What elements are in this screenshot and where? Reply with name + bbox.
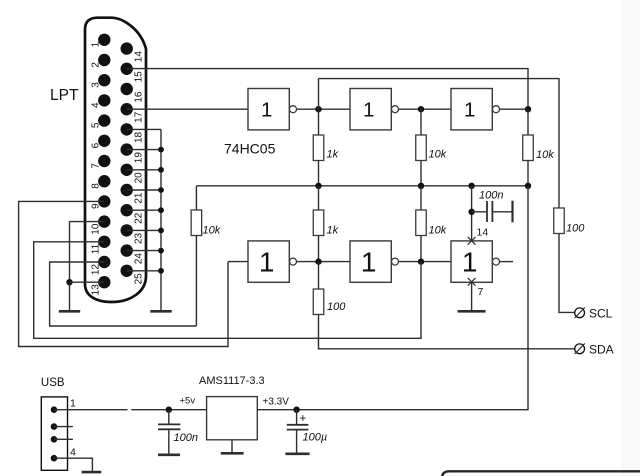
svg-text:100n: 100n bbox=[479, 190, 503, 202]
wire pin11 to node E bbox=[34, 242, 421, 338]
ground (C2) bbox=[158, 453, 180, 456]
pin 23 (LPT) bbox=[121, 224, 145, 244]
wire +3.3V rail bbox=[196, 185, 528, 187]
svg-text:100: 100 bbox=[566, 223, 585, 235]
node C junction bbox=[418, 106, 424, 112]
pin 8 (LPT) bbox=[90, 175, 110, 189]
pin 22 (LPT) bbox=[121, 204, 145, 224]
resistor R3 10k bbox=[523, 135, 554, 161]
svg-text:2: 2 bbox=[90, 62, 101, 68]
svg-text:10k: 10k bbox=[429, 225, 447, 237]
wire U2 tab to ground bbox=[231, 440, 233, 453]
label +3.3V bbox=[263, 397, 290, 408]
label USB bbox=[41, 377, 65, 389]
wire +5V segment b bbox=[131, 409, 206, 411]
resistor R6 10k bbox=[416, 210, 447, 237]
ground (U2) bbox=[221, 452, 244, 455]
ground (C3) bbox=[285, 452, 309, 455]
wire +5V segment a bbox=[54, 409, 128, 411]
rail junction node C bbox=[418, 183, 424, 189]
pin 5 (LPT) bbox=[90, 114, 110, 128]
capacitor C2 100n bbox=[158, 410, 180, 454]
svg-text:9: 9 bbox=[90, 203, 101, 209]
svg-text:10: 10 bbox=[90, 223, 101, 235]
wire node B to R 10k bbox=[527, 109, 529, 135]
bus junction pin 23 bbox=[158, 228, 164, 234]
pin 25 (LPT) bbox=[121, 265, 145, 285]
inverter U1B bbox=[350, 89, 399, 130]
svg-text:20: 20 bbox=[134, 172, 145, 184]
label 100n (C2) bbox=[174, 432, 198, 444]
wire U1E out to node E bbox=[399, 261, 452, 263]
capacitor C3 100u polarized bbox=[287, 410, 309, 454]
pin 1 (LPT) bbox=[90, 34, 110, 48]
svg-text:+: + bbox=[300, 413, 307, 425]
svg-text:14: 14 bbox=[477, 227, 489, 239]
label SDA bbox=[589, 343, 614, 357]
inverter U1E bbox=[350, 241, 399, 282]
svg-text:5: 5 bbox=[90, 122, 101, 128]
svg-text:13: 13 bbox=[90, 284, 101, 296]
svg-text:11: 11 bbox=[90, 243, 101, 254]
label AMS1117-3.3 bbox=[199, 375, 265, 387]
resistor R8 100 bbox=[554, 208, 585, 235]
wire pin10 to ground bbox=[70, 222, 105, 311]
usb pin 2 bbox=[51, 423, 73, 430]
svg-text:24: 24 bbox=[134, 253, 145, 265]
resistor R7 100 bbox=[313, 289, 346, 315]
svg-text:21: 21 bbox=[134, 192, 145, 204]
pin 19 (LPT) bbox=[121, 143, 145, 163]
wire ground bus pins 18-25 bbox=[127, 129, 161, 311]
svg-text:6: 6 bbox=[90, 142, 101, 148]
pin 2 (LPT) bbox=[90, 54, 110, 68]
inverter U1A bbox=[248, 89, 297, 130]
wire R8 to SCL bbox=[559, 234, 575, 313]
pin 20 (LPT) bbox=[121, 164, 145, 184]
wire U1 pin7 to ground bbox=[471, 282, 473, 311]
wire rail to R4 bbox=[195, 186, 197, 210]
svg-text:22: 22 bbox=[134, 212, 145, 224]
pin 13 (LPT) bbox=[90, 276, 110, 295]
bus junction pin 25 bbox=[158, 268, 164, 274]
svg-text:AMS1117-3.3: AMS1117-3.3 bbox=[199, 375, 265, 387]
pin14 x-mark bbox=[468, 237, 476, 245]
svg-text:100µ: 100µ bbox=[303, 432, 328, 444]
node D junction bbox=[315, 258, 321, 264]
frame corner (decor) bbox=[442, 471, 640, 476]
node E junction bbox=[418, 258, 424, 264]
svg-text:23: 23 bbox=[134, 232, 145, 244]
svg-text:14: 14 bbox=[134, 51, 145, 63]
capacitor C1 100n bbox=[472, 201, 512, 222]
wire node A to R 1k bbox=[318, 109, 320, 135]
svg-text:4: 4 bbox=[90, 102, 101, 108]
pin 24 (LPT) bbox=[121, 244, 145, 264]
wire rail to R6 bbox=[420, 186, 422, 210]
svg-text:16: 16 bbox=[134, 91, 145, 103]
svg-text:1: 1 bbox=[90, 41, 101, 47]
pin 14 label U1 bbox=[477, 227, 489, 239]
pin 3 (LPT) bbox=[90, 74, 110, 88]
svg-text:10k: 10k bbox=[203, 225, 221, 237]
svg-text:+3.3V: +3.3V bbox=[263, 397, 290, 408]
wire R7 to SDA line bbox=[319, 315, 575, 349]
wire pin9 to U1D input bbox=[19, 201, 228, 346]
pin 10 (LPT) bbox=[90, 215, 110, 234]
connector J1 LPT DB25 shell bbox=[85, 18, 146, 302]
svg-text:8: 8 bbox=[90, 183, 101, 189]
wire R1 to rail bbox=[318, 161, 320, 186]
svg-text:1k: 1k bbox=[327, 225, 339, 237]
svg-text:1: 1 bbox=[361, 247, 377, 278]
usb pin 4 label bbox=[70, 447, 76, 459]
pin 11 (LPT) bbox=[90, 236, 110, 255]
pin 7 (LPT) bbox=[90, 155, 110, 169]
wire R3 to rail bbox=[527, 161, 529, 186]
wire node D to R7 bbox=[318, 262, 320, 289]
wire R4 to pin12 line bbox=[195, 236, 197, 327]
pin7 x-mark bbox=[468, 278, 476, 286]
pin 15 (LPT) bbox=[121, 63, 145, 83]
node B junction bbox=[525, 106, 531, 112]
pin 4 (LPT) bbox=[90, 94, 110, 108]
ground (pin10/13) bbox=[59, 310, 80, 313]
svg-text:1: 1 bbox=[462, 247, 478, 278]
svg-text:4: 4 bbox=[70, 447, 76, 459]
wire node A top link bbox=[319, 79, 560, 208]
pin 17 (LPT) bbox=[121, 103, 145, 123]
svg-text:12: 12 bbox=[90, 264, 101, 276]
pin 12 (LPT) bbox=[90, 256, 110, 275]
wire pin12 to R4 bbox=[50, 262, 197, 326]
resistor R4 10k bbox=[191, 210, 221, 237]
wire R5 to node D bbox=[318, 236, 320, 262]
svg-text:74HC05: 74HC05 bbox=[224, 141, 276, 157]
node A junction bbox=[315, 106, 321, 112]
rail junction node A bbox=[315, 183, 321, 189]
svg-text:1: 1 bbox=[464, 99, 475, 122]
svg-text:25: 25 bbox=[134, 273, 145, 285]
svg-text:1k: 1k bbox=[327, 149, 339, 161]
bus junction pin 24 bbox=[158, 248, 164, 254]
node pin10/13 junction bbox=[66, 279, 72, 285]
svg-text:USB: USB bbox=[41, 377, 65, 389]
usb pin 1 label bbox=[70, 398, 76, 410]
svg-text:SDA: SDA bbox=[589, 343, 614, 357]
rail junction node B bbox=[525, 183, 531, 189]
svg-text:18: 18 bbox=[134, 131, 145, 143]
svg-text:1: 1 bbox=[363, 99, 374, 122]
wire U1F output stub bbox=[500, 261, 514, 263]
svg-text:15: 15 bbox=[134, 71, 145, 83]
node +5V junction bbox=[166, 407, 172, 413]
ground (bus) bbox=[150, 310, 171, 313]
regulator U2 AMS1117-3.3 bbox=[207, 397, 258, 440]
svg-text:1: 1 bbox=[70, 398, 76, 410]
pin 14 (LPT) bbox=[121, 42, 145, 62]
cap node junction bbox=[468, 209, 474, 215]
svg-text:7: 7 bbox=[90, 163, 101, 169]
label 100n bbox=[479, 190, 503, 202]
svg-text:3: 3 bbox=[90, 82, 101, 88]
wire pin15 to node B top bbox=[127, 69, 528, 110]
pin 18 (LPT) bbox=[121, 123, 145, 143]
wire rail to U1 pin14 bbox=[471, 186, 473, 241]
label SCL bbox=[589, 307, 613, 321]
bus junction pin 21 bbox=[158, 187, 164, 193]
ground (usb) bbox=[82, 471, 102, 474]
wire U1C out to node B bbox=[500, 108, 529, 110]
pin 9 (LPT) bbox=[90, 195, 110, 209]
pin 21 (LPT) bbox=[121, 184, 145, 204]
ground (U1 pin7) bbox=[458, 310, 486, 313]
wire U1B out to node C bbox=[399, 108, 452, 110]
label +5v bbox=[180, 396, 196, 407]
pin 7 label U1 bbox=[478, 286, 484, 298]
wire pin13 to junction bbox=[70, 281, 105, 283]
svg-text:10k: 10k bbox=[536, 149, 554, 161]
node +3.3V junction bbox=[293, 407, 299, 413]
svg-text:10k: 10k bbox=[429, 149, 447, 161]
terminal SCL bbox=[575, 307, 585, 318]
wire node C to R 10k bbox=[420, 109, 422, 135]
label 74HC05 bbox=[224, 141, 276, 157]
pin 16 (LPT) bbox=[121, 83, 145, 103]
svg-text:19: 19 bbox=[134, 152, 145, 164]
resistor R2 10k bbox=[416, 135, 447, 161]
inverter U1D bbox=[248, 241, 297, 282]
resistor R1 1k bbox=[313, 135, 338, 161]
wire to U1D input bbox=[228, 261, 248, 263]
svg-text:SCL: SCL bbox=[589, 307, 613, 321]
wire usb pin4 to ground bbox=[54, 458, 92, 472]
wire U1A out to node A bbox=[297, 108, 351, 110]
wire R2 to rail bbox=[420, 161, 422, 186]
usb pin 1 bbox=[51, 406, 58, 413]
terminal SDA bbox=[575, 343, 585, 354]
svg-text:7: 7 bbox=[478, 286, 484, 298]
svg-text:17: 17 bbox=[134, 111, 145, 123]
wire U1D out to node D bbox=[297, 261, 351, 263]
wire node A riser bbox=[318, 79, 320, 110]
svg-text:1: 1 bbox=[261, 99, 272, 122]
inverter U1F bbox=[451, 241, 500, 282]
inverter U1C bbox=[451, 89, 500, 130]
wire rail to R5 bbox=[318, 186, 320, 210]
pin 6 (LPT) bbox=[90, 135, 110, 149]
label 100u bbox=[303, 432, 328, 444]
usb pin 4 bbox=[51, 455, 58, 462]
label LPT bbox=[50, 87, 79, 104]
svg-text:+5v: +5v bbox=[180, 396, 196, 407]
svg-text:1: 1 bbox=[259, 247, 275, 278]
resistor R5 1k bbox=[313, 210, 338, 237]
rail junction U1 vcc bbox=[468, 183, 474, 189]
wire pin17 to U1 input bbox=[127, 108, 248, 110]
connector J2 USB shell bbox=[41, 397, 67, 470]
svg-text:100: 100 bbox=[327, 301, 346, 313]
bus junction pin 22 bbox=[158, 207, 164, 213]
usb pin 3 bbox=[51, 436, 73, 443]
bus junction pin 19 bbox=[158, 147, 164, 153]
ground bar (C1) bbox=[511, 201, 513, 223]
wire R6 to node E bbox=[420, 236, 422, 262]
wire +3.3V bbox=[257, 186, 528, 410]
svg-text:100n: 100n bbox=[174, 432, 198, 444]
bus junction pin 20 bbox=[158, 167, 164, 173]
svg-text:LPT: LPT bbox=[50, 87, 79, 104]
